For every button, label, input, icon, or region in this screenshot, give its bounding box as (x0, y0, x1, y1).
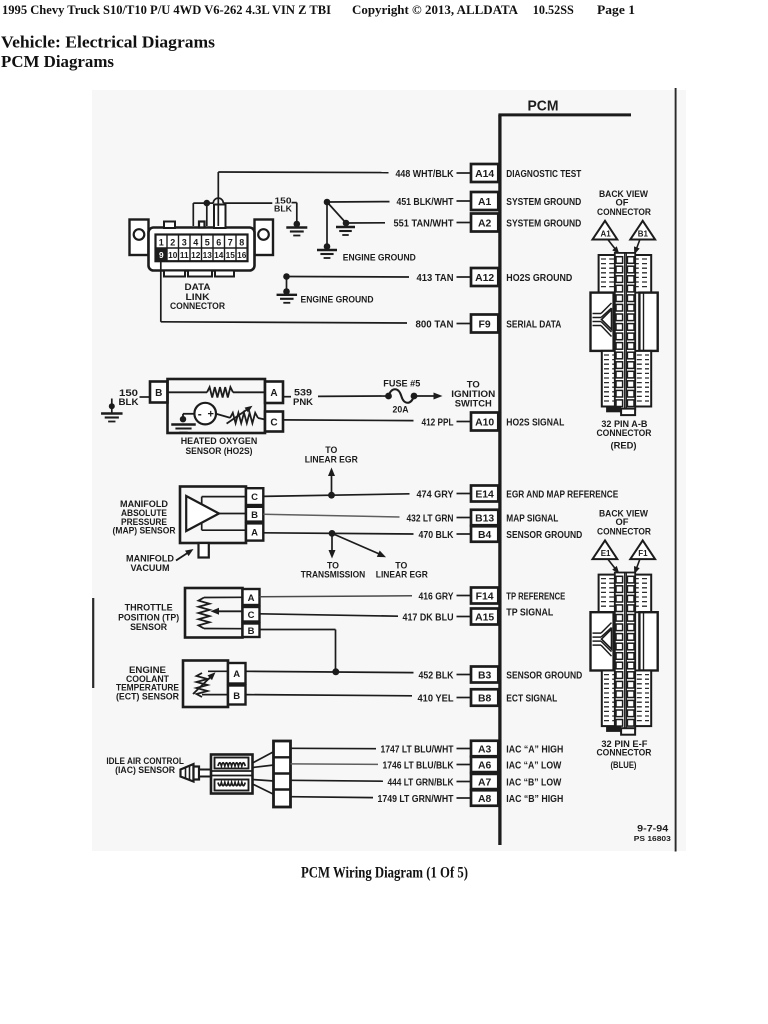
wire bundle pattern (593, 313, 602, 315)
connector foot (606, 726, 621, 732)
arrow from F1 to pin (636, 560, 640, 570)
engine ground symbol upper (336, 226, 355, 228)
svg-text:11: 11 (180, 250, 189, 260)
svg-text:A12: A12 (475, 273, 494, 284)
svg-text:PCM: PCM (528, 99, 559, 115)
wire stub to A3 (457, 748, 472, 750)
wire 417 DK BLU (260, 614, 399, 616)
TP body (185, 588, 243, 638)
connector bottom hatched block (602, 671, 651, 727)
svg-text:6: 6 (216, 237, 221, 247)
TP terminal B (243, 624, 260, 638)
svg-text:E14: E14 (475, 489, 494, 500)
svg-text:3: 3 (182, 237, 187, 247)
PCM top line (498, 113, 631, 116)
wire 452 BLK (246, 671, 414, 672)
svg-text:15: 15 (226, 250, 236, 260)
IAC coil B winding (218, 783, 245, 786)
wire stub to F14 (457, 595, 472, 597)
pin box A15 (471, 609, 498, 625)
ECT terminal A (228, 663, 246, 684)
wire 539 PNK (283, 396, 291, 398)
arrow from A1 to pin (608, 240, 616, 250)
data link connector bottom tab 2 (188, 271, 212, 277)
svg-text:A14: A14 (475, 169, 494, 180)
svg-text:B8: B8 (478, 693, 492, 704)
pin box A3 (471, 741, 498, 757)
svg-text:A10: A10 (475, 417, 494, 428)
pin box B3 (471, 667, 498, 683)
svg-text:A: A (248, 593, 255, 604)
junction dot on DLC ground wire (204, 200, 211, 207)
TP wiper arrow (216, 610, 243, 612)
IAC fan-out wires to connector (253, 752, 275, 764)
ECT terminal B (228, 686, 246, 705)
ground symbol HO2S 150 BLK (101, 412, 123, 414)
connector mid left block (591, 612, 614, 670)
svg-text:CONNECTOR: CONNECTOR (597, 428, 652, 439)
svg-text:DIAGNOSTIC TEST: DIAGNOSTIC TEST (506, 169, 582, 180)
wire stub to B3 (457, 674, 472, 676)
svg-text:12: 12 (191, 250, 201, 260)
wire stub to B4 (457, 533, 472, 535)
svg-text:FUSE #5: FUSE #5 (383, 379, 421, 390)
pin box A14 (471, 164, 498, 182)
svg-text:SERIAL DATA: SERIAL DATA (506, 319, 562, 330)
engine ground symbol lower (317, 249, 337, 251)
pin box B4 (471, 526, 498, 542)
svg-text:B3: B3 (478, 670, 492, 681)
IAC shaft (199, 770, 212, 777)
pin box A10 (471, 413, 498, 431)
svg-text:C: C (270, 418, 277, 429)
junction dot on 413 TAN (283, 273, 290, 280)
MAP vacuum stub (199, 543, 209, 558)
pin box A8 (471, 790, 498, 806)
junction dot on 551 TAN/WHT (343, 220, 350, 227)
svg-text:C: C (251, 492, 258, 503)
ECT thermistor zigzag (197, 673, 208, 697)
wire 1746 LT BLU/BLK (291, 763, 379, 766)
svg-text:SYSTEM GROUND: SYSTEM GROUND (506, 197, 581, 208)
HO2S body (168, 379, 266, 433)
svg-text:TRANSMISSION: TRANSMISSION (301, 570, 366, 581)
MAP terminal A (246, 523, 263, 540)
ground symbol inside HO2S (171, 423, 196, 425)
wire 150 BLK to B terminal (140, 396, 151, 398)
data link connector left ear (130, 220, 149, 256)
svg-text:F9: F9 (479, 319, 491, 330)
svg-text:10.52SS: 10.52SS (533, 3, 574, 17)
svg-text:BLK: BLK (119, 397, 139, 408)
32 pin A-B connector back view (red) (591, 189, 658, 452)
data link connector pin 9 filled cell (156, 248, 168, 261)
svg-text:LINEAR EGR: LINEAR EGR (376, 570, 428, 581)
svg-text:A6: A6 (478, 760, 492, 771)
wire 551 TAN/WHT (346, 222, 385, 224)
MAP inner wires (202, 496, 246, 498)
pin box A2 (471, 214, 498, 232)
wire DLC pin 4 up (192, 203, 194, 226)
data link connector bottom tab 3 (215, 271, 234, 277)
svg-text:A3: A3 (478, 744, 492, 755)
HO2S heater resistor (207, 387, 233, 397)
HO2S terminal C (265, 412, 283, 432)
svg-text:432 LT GRN: 432 LT GRN (407, 513, 454, 524)
wire TP B to sensor ground (260, 629, 336, 631)
engine ground symbol for 413 TAN (277, 294, 298, 296)
pin box A1 (471, 192, 498, 210)
svg-text:A15: A15 (475, 612, 494, 623)
arrow from E1 to pin (608, 560, 616, 570)
svg-text:1: 1 (159, 237, 164, 247)
svg-text:A1: A1 (600, 229, 611, 238)
ECT wire bottom (202, 694, 228, 696)
HO2S signal wire (216, 414, 230, 418)
connector mid left block (591, 293, 614, 351)
pin box A6 (471, 757, 498, 772)
triangle marker A1 (593, 221, 618, 240)
IAC pintle neck (194, 767, 200, 780)
TP wire top (204, 596, 243, 598)
wire ground drop from 413 (286, 277, 288, 292)
svg-text:B13: B13 (475, 513, 494, 524)
wire stub to A14 (457, 172, 472, 174)
wire stub to A10 (457, 421, 472, 423)
data link connector right bolt hole (258, 229, 269, 240)
svg-text:TP SIGNAL: TP SIGNAL (506, 607, 553, 618)
arrow diagonal to linear EGR (332, 533, 381, 554)
connector foot (606, 407, 621, 413)
wire bundle pattern (593, 632, 602, 634)
svg-text:Vehicle: Electrical Diagrams: Vehicle: Electrical Diagrams (1, 32, 216, 51)
svg-text:DATA: DATA (185, 282, 211, 292)
wire 410 YEL (246, 695, 413, 696)
data link connector left bolt hole (134, 229, 145, 240)
connector pin spine (615, 573, 635, 730)
svg-text:CONNECTOR: CONNECTOR (597, 526, 651, 537)
IAC shaft lines through body (212, 770, 253, 772)
svg-text:1746 LT BLU/BLK: 1746 LT BLU/BLK (383, 760, 455, 771)
svg-text:SENSOR GROUND: SENSOR GROUND (506, 670, 582, 681)
svg-text:Copyright © 2013, ALLDATA: Copyright © 2013, ALLDATA (352, 3, 518, 17)
svg-text:ENGINE GROUND: ENGINE GROUND (343, 252, 416, 263)
svg-text:9-7-94: 9-7-94 (637, 824, 668, 834)
svg-text:ENGINE GROUND: ENGINE GROUND (301, 294, 374, 305)
scanned page background (92, 90, 686, 851)
connector top hatched block (599, 255, 652, 293)
svg-text:10: 10 (168, 250, 178, 260)
wire 413 TAN (287, 276, 410, 279)
connector bottom hatched block (602, 351, 651, 407)
svg-text:B: B (233, 691, 240, 702)
wire 448 WHT/BLK horizontal (218, 171, 388, 174)
svg-text:PNK: PNK (293, 397, 313, 408)
svg-text:B: B (248, 626, 255, 637)
32 pin E-F connector back view (blue) (591, 509, 658, 772)
wire stub to B8 (457, 697, 472, 699)
wire 412 PPL (283, 419, 414, 422)
svg-text:CONNECTOR: CONNECTOR (170, 301, 225, 311)
PCM vertical line (498, 115, 501, 845)
svg-text:412 PPL: 412 PPL (422, 417, 454, 428)
svg-text:8: 8 (239, 237, 244, 247)
wire to fuse (318, 395, 389, 397)
svg-text:SENSOR GROUND: SENSOR GROUND (506, 530, 582, 541)
svg-text:C: C (248, 610, 255, 621)
svg-text:B1: B1 (638, 229, 649, 238)
pin box B8 (471, 689, 498, 706)
svg-text:A: A (270, 388, 277, 399)
svg-text:HO2S SIGNAL: HO2S SIGNAL (506, 417, 564, 428)
arrow up to linear EGR (331, 473, 333, 495)
svg-text:551 TAN/WHT: 551 TAN/WHT (394, 218, 455, 229)
svg-text:470 BLK: 470 BLK (419, 530, 455, 541)
data link connector pin grid (156, 235, 248, 262)
svg-text:413 TAN: 413 TAN (417, 273, 454, 284)
junction dot ground (324, 243, 331, 250)
svg-text:(IAC) SENSOR: (IAC) SENSOR (115, 765, 175, 776)
svg-text:HO2S GROUND: HO2S GROUND (506, 273, 572, 284)
wire 474 GRY (263, 494, 409, 497)
wire 1749 LT GRN/WHT (291, 796, 374, 799)
pin box A12 (471, 268, 498, 286)
wire diagonal 451 to 551 ground (327, 202, 346, 223)
svg-text:4: 4 (193, 237, 198, 247)
right frame border line (675, 88, 677, 852)
data link connector bottom tab 1 (164, 271, 185, 277)
svg-text:SYSTEM GROUND: SYSTEM GROUND (506, 218, 581, 229)
svg-text:1747 LT BLU/WHT: 1747 LT BLU/WHT (381, 744, 455, 755)
svg-text:PS 16803: PS 16803 (634, 834, 671, 843)
IAC coil A winding (218, 763, 245, 766)
svg-text:IAC “A” HIGH: IAC “A” HIGH (506, 744, 563, 755)
pin box E14 (471, 486, 498, 502)
wire 451 BLK/WHT (327, 201, 390, 203)
svg-text:(BLUE): (BLUE) (611, 760, 637, 771)
svg-text:16: 16 (237, 250, 247, 260)
wire stub to A1 (457, 200, 472, 202)
svg-text:B: B (155, 388, 162, 399)
svg-text:13: 13 (203, 250, 213, 260)
svg-text:F1: F1 (638, 549, 648, 558)
svg-text:BLK: BLK (274, 204, 293, 214)
svg-text:451 BLK/WHT: 451 BLK/WHT (397, 197, 455, 208)
IAC coil B box (215, 780, 249, 791)
svg-text:MAP SIGNAL: MAP SIGNAL (506, 513, 558, 524)
HO2S terminal B (150, 382, 168, 403)
wire stub to A7 (457, 781, 472, 783)
junction dot (283, 288, 290, 295)
svg-text:CONNECTOR: CONNECTOR (597, 747, 652, 758)
triangle marker E1 (593, 540, 618, 559)
TP terminal C (243, 607, 260, 622)
pin box F14 (471, 588, 498, 604)
svg-text:9: 9 (159, 250, 164, 260)
svg-text:A: A (233, 669, 240, 680)
IAC body (211, 755, 253, 794)
TP resistor (199, 598, 210, 629)
svg-text:+: + (207, 409, 213, 421)
left partial frame border line (92, 598, 94, 688)
IAC connector column (274, 741, 291, 807)
data link connector top tab around pin wire (214, 205, 226, 229)
wire stub to A12 (457, 276, 472, 278)
svg-text:A1: A1 (478, 197, 492, 208)
wire stub to B13 (457, 517, 472, 519)
wire DLC ground horizontal (193, 202, 213, 204)
svg-text:7: 7 (228, 237, 233, 247)
svg-text:448 WHT/BLK: 448 WHT/BLK (396, 169, 455, 180)
ECT body (183, 661, 228, 708)
wire 432 LT GRN (263, 514, 399, 517)
HO2S cell ground wire (183, 413, 194, 415)
wire 470 BLK (263, 533, 413, 534)
pin box B13 (471, 510, 498, 526)
junction dot on 451 BLK/WHT (324, 199, 331, 206)
svg-text:LINEAR EGR: LINEAR EGR (305, 454, 358, 465)
svg-text:410 YEL: 410 YEL (418, 693, 454, 704)
svg-text:IAC “B” HIGH: IAC “B” HIGH (506, 794, 563, 805)
TP wire bottom (204, 628, 243, 630)
wire stub to A15 (457, 616, 472, 618)
svg-text:IAC “B” LOW: IAC “B” LOW (506, 777, 561, 788)
wire 444 LT GRN/BLK (291, 779, 384, 782)
svg-text:1995 Chevy Truck S10/T10 P/U 4: 1995 Chevy Truck S10/T10 P/U 4WD V6-262 … (2, 3, 331, 17)
HO2S variable resistor (230, 413, 258, 423)
svg-text:SENSOR (HO2S): SENSOR (HO2S) (186, 446, 253, 457)
junction dot on 474 GRY (328, 492, 335, 499)
IAC coil A box (215, 758, 249, 769)
svg-text:5: 5 (205, 237, 210, 247)
triangle marker F1 (630, 540, 655, 559)
MAP body (180, 487, 246, 544)
svg-text:B: B (251, 510, 258, 521)
wire 800 TAN vertical from DLC pin 9 (160, 259, 162, 322)
wire 150 BLK stub at HO2S (111, 399, 113, 414)
svg-text:SWITCH: SWITCH (455, 398, 492, 409)
junction dot TP B / ECT A sensor ground (332, 668, 339, 675)
junction dot 150 BLK ground (294, 221, 301, 228)
svg-text:A8: A8 (478, 794, 492, 805)
svg-text:800 TAN: 800 TAN (416, 319, 454, 330)
wire 800 TAN horizontal (161, 322, 407, 323)
data link connector top key tab (199, 222, 205, 228)
svg-text:A7: A7 (478, 777, 492, 788)
arrow to ignition switch (414, 395, 434, 397)
svg-text:PCM Diagrams: PCM Diagrams (1, 52, 115, 71)
svg-text:1749 LT GRN/WHT: 1749 LT GRN/WHT (378, 794, 455, 805)
wire stub to A6 (457, 764, 472, 766)
svg-text:(MAP) SENSOR: (MAP) SENSOR (113, 526, 176, 537)
svg-text:PCM Wiring Diagram (1 Of 5): PCM Wiring Diagram (1 Of 5) (301, 865, 468, 882)
connector mid right block (639, 612, 657, 670)
wire stub to A8 (457, 797, 472, 799)
engine ground symbol for DLC 150 BLK (286, 226, 307, 228)
svg-text:E1: E1 (601, 549, 611, 558)
wire stub to A2 (457, 222, 472, 224)
ECT wire top (208, 670, 228, 672)
wire 448 WHT/BLK vertical from DLC pin 6 (217, 172, 219, 226)
svg-text:IAC “A” LOW: IAC “A” LOW (506, 760, 561, 771)
svg-text:Page 1: Page 1 (597, 3, 635, 17)
IAC pintle cone (181, 764, 194, 782)
svg-text:474 GRY: 474 GRY (417, 489, 454, 500)
wire 416 GRY (260, 596, 413, 597)
svg-text:-: - (198, 407, 202, 421)
svg-text:444 LT GRN/BLK: 444 LT GRN/BLK (388, 777, 455, 788)
svg-text:F14: F14 (476, 591, 494, 602)
ECT thermistor arrow (193, 677, 211, 695)
svg-text:SENSOR: SENSOR (130, 622, 167, 633)
data link connector body (149, 228, 255, 271)
pin box A7 (471, 774, 498, 789)
HO2S sense cell circle (194, 403, 216, 425)
svg-text:ECT SIGNAL: ECT SIGNAL (506, 693, 557, 704)
wire DLC pin 5 up (206, 203, 208, 226)
svg-text:TP REFERENCE: TP REFERENCE (506, 591, 565, 602)
svg-text:416 GRY: 416 GRY (419, 591, 454, 602)
connector pin spine (615, 253, 635, 410)
wire stub to F9 (457, 323, 472, 325)
TP terminal A (243, 589, 260, 605)
junction dot (109, 403, 115, 409)
arrow to vacuum stub (176, 552, 189, 561)
svg-text:CONNECTOR: CONNECTOR (597, 207, 651, 218)
connector mid right block (639, 293, 657, 351)
svg-text:452 BLK: 452 BLK (419, 670, 455, 681)
svg-text:(ECT) SENSOR: (ECT) SENSOR (116, 691, 179, 702)
svg-text:417 DK BLU: 417 DK BLU (403, 612, 454, 623)
fuse #5 symbol (385, 393, 392, 400)
junction dot on 470 BLK (329, 530, 336, 537)
wire 1747 LT BLU/WHT (291, 747, 377, 749)
wire 150 BLK corner to ground (292, 202, 297, 204)
svg-text:14: 14 (214, 250, 224, 260)
wire stub to E14 (457, 493, 472, 495)
junction dot (180, 416, 186, 422)
data link connector right ear (255, 220, 274, 256)
triangle marker B1 (630, 221, 655, 240)
arrow down to transmission (331, 533, 333, 552)
connector top hatched block (599, 575, 652, 613)
HO2S heater wire (168, 391, 208, 393)
pin box F9 (471, 315, 498, 333)
svg-text:A: A (251, 528, 258, 539)
MAP terminal B (246, 507, 263, 522)
svg-text:VACUUM: VACUUM (131, 563, 170, 574)
HO2S variable resistor arrow (227, 408, 250, 424)
wire ground drop from 451 (326, 202, 328, 247)
svg-text:B4: B4 (478, 530, 492, 541)
MAP amplifier triangle (186, 496, 219, 531)
wire hop over 448 wire (213, 198, 223, 203)
MAP terminal C (246, 488, 263, 505)
svg-text:(RED): (RED) (611, 441, 637, 452)
svg-text:A2: A2 (478, 218, 492, 229)
svg-text:20A: 20A (393, 404, 409, 415)
svg-text:2: 2 (170, 237, 175, 247)
data link connector top tab 1 (164, 222, 175, 229)
HO2S terminal A (265, 382, 283, 404)
arrow from B1 to pin (636, 240, 640, 250)
svg-text:EGR AND MAP REFERENCE: EGR AND MAP REFERENCE (506, 489, 618, 500)
